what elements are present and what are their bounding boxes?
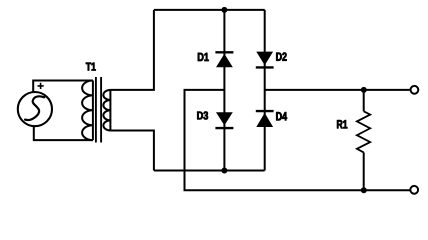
wire bottom rail bbox=[154, 170, 265, 172]
resistor R1 zigzag bbox=[357, 111, 370, 152]
resistor R1 lead top bbox=[363, 90, 365, 111]
diode D1 cathode bar bbox=[215, 51, 233, 53]
transformer T1 core line right bbox=[100, 77, 102, 143]
diode D3 cathode bar bbox=[215, 127, 233, 129]
terminal bottom right bbox=[410, 186, 418, 194]
diode D1 triangle bbox=[216, 54, 233, 67]
transformer T1 primary winding axis line bbox=[92, 81, 94, 141]
node junction dot R1 top bbox=[361, 87, 367, 93]
wire bridge midpoint left to bottom output bbox=[185, 90, 410, 190]
label D1 bbox=[198, 53, 209, 61]
wire AC top to transformer primary top bbox=[33, 81, 93, 93]
wire left diode column bbox=[223, 10, 225, 171]
transformer T1 secondary winding axis line bbox=[109, 90, 111, 131]
wire AC bottom to transformer primary bottom bbox=[34, 126, 93, 140]
node junction dot bottom rail bbox=[221, 168, 227, 174]
wire top rail bbox=[154, 9, 265, 11]
AC source circle bbox=[18, 92, 52, 126]
label D4 bbox=[276, 112, 287, 120]
wire bridge midpoint right to top output bbox=[265, 89, 410, 91]
label D3 bbox=[197, 112, 208, 120]
wire right diode column bbox=[264, 10, 266, 171]
diode D4 triangle bbox=[256, 113, 273, 127]
wire secondary top to top rail riser bbox=[110, 10, 153, 90]
node junction dot R1 bottom bbox=[361, 187, 367, 193]
diode D4 cathode bar bbox=[256, 110, 274, 112]
transformer T1 primary winding loops bbox=[82, 81, 93, 141]
plus sign polarity mark bbox=[38, 83, 44, 89]
label D2 bbox=[276, 53, 286, 61]
resistor R1 lead bottom bbox=[363, 152, 365, 190]
terminal top right bbox=[411, 86, 419, 94]
diode D3 triangle bbox=[216, 112, 233, 125]
transformer T1 core line left bbox=[95, 77, 97, 143]
wire secondary bottom to bottom rail bbox=[110, 131, 153, 171]
label R1 bbox=[337, 120, 347, 128]
node junction dot top rail bbox=[221, 7, 227, 13]
diode D2 cathode bar bbox=[256, 66, 274, 68]
diode D2 triangle bbox=[256, 52, 273, 66]
AC source sine wave bbox=[25, 96, 44, 120]
label T1 bbox=[86, 63, 96, 71]
transformer T1 secondary winding loops bbox=[103, 90, 110, 131]
